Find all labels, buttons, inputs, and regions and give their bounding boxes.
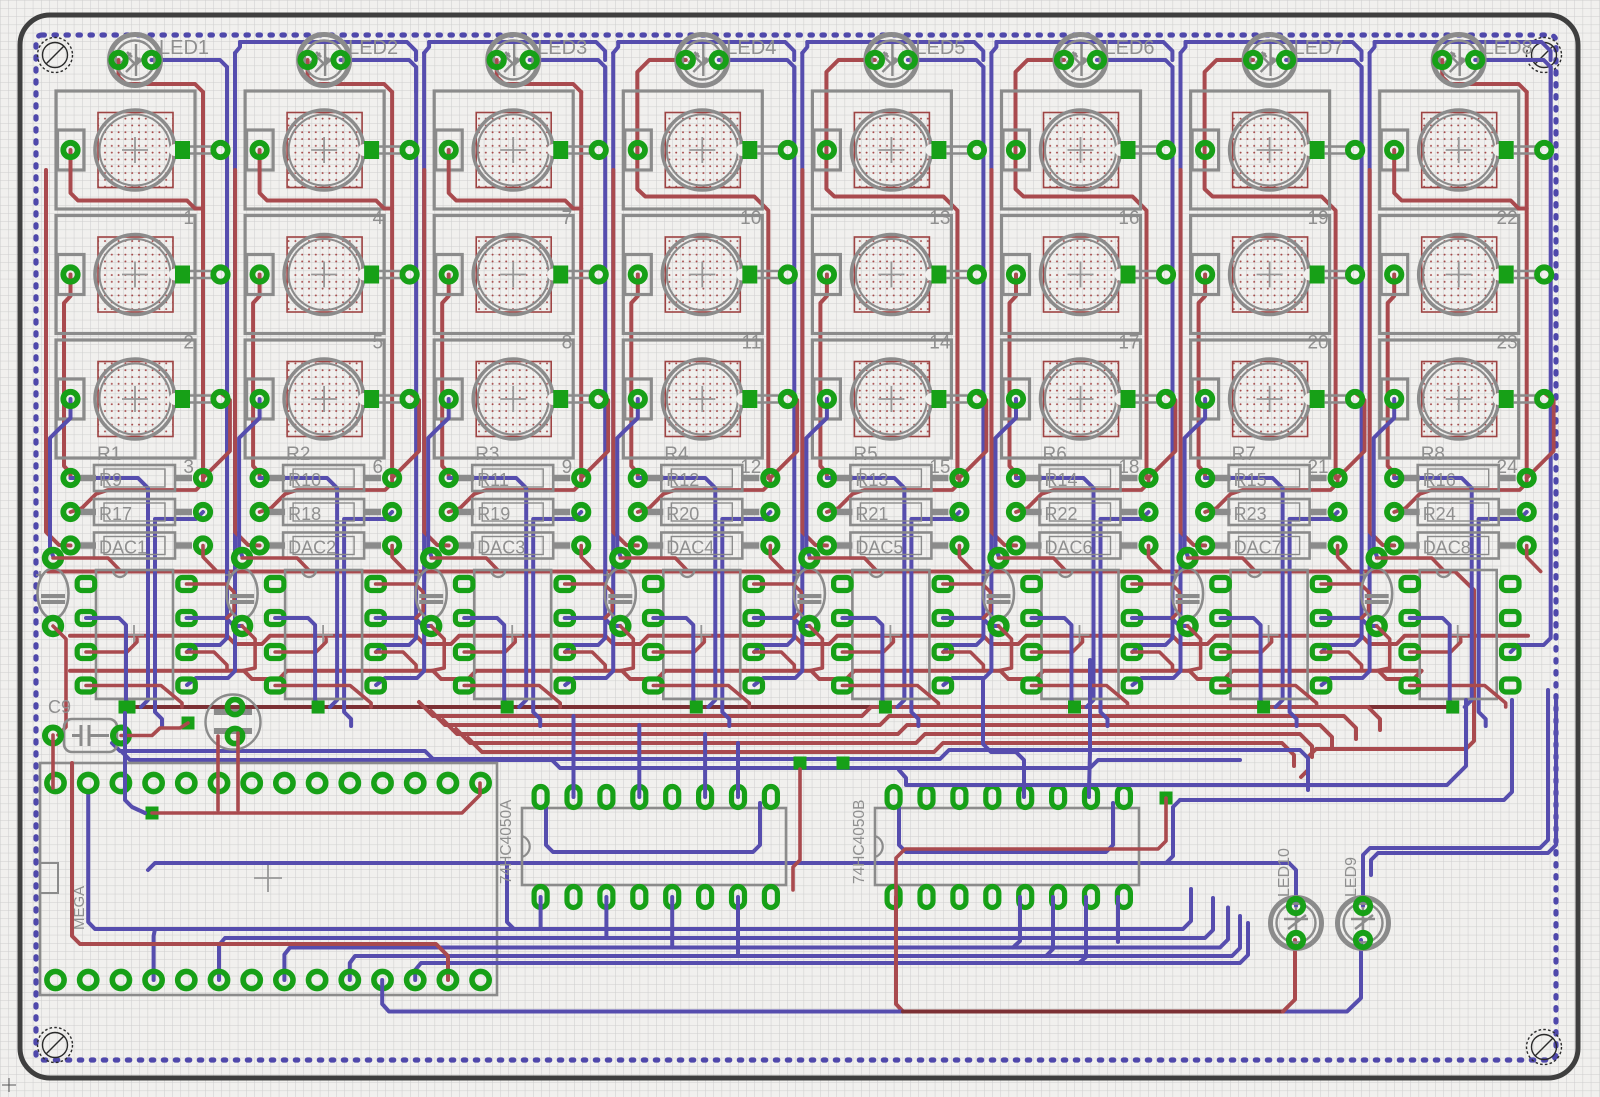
pad C5 - (801, 618, 817, 634)
wire red C6 bottom stub (999, 626, 1012, 671)
pad header bottom 8 (276, 971, 293, 988)
pad U3 pin7 right (556, 612, 574, 625)
button S8 cell (434, 216, 573, 334)
button S9 cell (434, 340, 573, 458)
wire blue IC1 drop (604, 897, 608, 938)
pad R11 left (442, 471, 456, 485)
svg-text:DAC4: DAC4 (666, 538, 714, 558)
LED LED1 (110, 35, 161, 86)
pad U5 pin4 left (834, 679, 852, 692)
pad IC1 bottom 6 (699, 887, 712, 908)
wire blue U6 pin2 stub (1032, 618, 1075, 705)
pad header top 9 (309, 774, 326, 791)
svg-text:5: 5 (373, 333, 384, 354)
pad C4 + (612, 550, 628, 566)
pad header bottom 5 (178, 971, 195, 988)
via S24 (1537, 392, 1551, 406)
pad U5 pin2 left (834, 612, 852, 625)
wire red U1 pin6 right (187, 652, 228, 671)
wire red R13 right riser col5 (959, 394, 986, 478)
button S3 cell (56, 340, 195, 458)
wire blue vertical V2 col2 (376, 53, 424, 685)
wire blue top jumper col6 (1181, 42, 1186, 53)
pad C7 + (1180, 550, 1196, 566)
pad S3 left (63, 392, 77, 406)
via S23 (1537, 267, 1551, 281)
wire blue U4 pin2 stub (653, 618, 696, 705)
wire red R19 bridge col3 (449, 478, 582, 512)
svg-text:R10: R10 (288, 470, 321, 490)
svg-text:LED2: LED2 (348, 37, 398, 59)
pad R11 right (574, 471, 588, 485)
pad DAC8 left (1387, 538, 1401, 552)
wire red C7 bottom stub (1188, 626, 1201, 671)
pad U4 pin1 left (645, 578, 663, 591)
wire red fan bus 2 (431, 711, 1356, 739)
wire red left vertical col2 (253, 275, 260, 479)
pad U4 pin4 left (645, 679, 663, 692)
wire red R20 bridge col4 (638, 478, 771, 512)
svg-text:R3: R3 (475, 444, 499, 465)
svg-text:R23: R23 (1234, 504, 1267, 524)
pad C5 + (801, 550, 817, 566)
wire red U7 pin3 stub (1221, 639, 1272, 652)
wire blue IC2 riser 1 (983, 678, 1024, 797)
pad DAC1 right (196, 538, 210, 552)
pad DAC2 right (385, 538, 399, 552)
pad header bottom 6 (210, 971, 227, 988)
button S5 cell (245, 216, 384, 334)
resistor DAC1 (78, 533, 192, 559)
svg-text:R12: R12 (666, 470, 699, 490)
wire red far-left vertical col6 (992, 170, 1017, 546)
wire blue link x507 (507, 863, 514, 929)
wire blue top jumper col7 (1370, 42, 1375, 53)
wire blue button S21 (1185, 399, 1206, 556)
pad C2 + (234, 550, 250, 566)
svg-text:DAC6: DAC6 (1045, 538, 1093, 558)
via square col4 (690, 701, 703, 714)
wire red bottom long (896, 897, 903, 1012)
wire blue U5 pin7 to C6 (943, 618, 999, 626)
button S21 cell (1191, 340, 1330, 458)
wire red C5 top stub (809, 558, 877, 572)
via square col8 (1446, 701, 1459, 714)
wire blue via links (125, 713, 145, 813)
wire red U4 pin3 stub (653, 639, 704, 652)
wire red far-left vertical col7 (1181, 170, 1206, 546)
button S24 cell (1380, 340, 1519, 458)
via square (800,763) (794, 757, 807, 770)
pad U7 pin7 right (1312, 612, 1330, 625)
wire blue IC2 riser 2 (1089, 660, 1090, 797)
pad U2 pin8 right (367, 578, 385, 591)
pad C3 + (423, 550, 439, 566)
pad U1 pin7 right (178, 612, 196, 625)
via S5 (402, 267, 416, 281)
pad header bottom 12 (407, 971, 424, 988)
wire red vertical col3 (579, 92, 583, 478)
pad S10 left (631, 143, 645, 157)
wire blue button S9 (428, 399, 449, 556)
wire blue bundle 3 (284, 908, 1228, 981)
capacitor C4 (603, 569, 636, 619)
pad IC2 bottom 7 (1085, 887, 1098, 908)
svg-text:R14: R14 (1045, 470, 1078, 490)
pad S18 left (1009, 392, 1023, 406)
wire blue LED6 stub (1097, 60, 1173, 92)
wire red bus y671 (70, 671, 1422, 679)
wire red button S4 (260, 150, 393, 209)
pad R18 right (385, 505, 399, 519)
svg-text:14: 14 (929, 333, 951, 354)
wire red C2 bottom stub (242, 626, 255, 671)
wire red DAC8 right stub (1527, 546, 1541, 572)
pad S20 left (1198, 267, 1212, 281)
capacitor C7 (1171, 569, 1204, 619)
wire blue mid vertical A col6 (1016, 478, 1094, 707)
wire red DAC6 right stub (1149, 546, 1163, 572)
svg-text:R20: R20 (666, 504, 699, 524)
svg-text:R6: R6 (1043, 444, 1067, 465)
wire red C5 bottom stub (809, 626, 822, 671)
wire blue IC1 riser (736, 743, 740, 797)
wire red U8 pin3 stub (1410, 639, 1461, 652)
pad DAC6 right (1141, 538, 1155, 552)
resistor R13 (834, 465, 948, 491)
resistor R22 (1024, 499, 1138, 525)
wire red R24 bridge col8 (1394, 478, 1527, 512)
wire blue IC1 riser (703, 734, 707, 797)
wire red DAC5 right stub (959, 546, 973, 572)
pad IC2 bottom 6 (1052, 887, 1065, 908)
wire red DAC2 right stub (392, 546, 406, 572)
pad S14 left (820, 267, 834, 281)
wire blue fan bus 1 (112, 743, 1308, 790)
pad S22 right D (1499, 141, 1514, 159)
pad U5 pin1 left (834, 578, 852, 591)
pad U3 pin4 left (455, 679, 473, 692)
svg-text:4: 4 (373, 208, 384, 229)
wire red U4 pin8 right (754, 584, 802, 618)
IC U8 DIP8 outline (1420, 570, 1497, 699)
svg-text:DAC2: DAC2 (288, 538, 336, 558)
pad header top 12 (407, 774, 424, 791)
wire red LED7 stub (1205, 60, 1336, 478)
pad U2 pin5 right (367, 679, 385, 692)
button S18 cell (1002, 340, 1141, 458)
wire blue mid vertical B col3 (533, 512, 581, 726)
resistor R17 (78, 499, 192, 525)
wire red C1 bottom stub (53, 626, 66, 735)
LED LED8 (1433, 35, 1484, 86)
pad Q1 b (227, 728, 242, 743)
via square (152,813) (146, 807, 159, 820)
wire red U6 pin6 right (1132, 652, 1173, 671)
pad U4 pin8 right (745, 578, 763, 591)
pad S2 right D (175, 266, 190, 284)
pad S19 right D (1310, 141, 1325, 159)
IC U4 DIP8 outline (663, 570, 740, 699)
capacitor C9 (64, 719, 117, 752)
pad S15 left (820, 392, 834, 406)
pad R10 right (385, 471, 399, 485)
pad C9 2 (113, 728, 129, 744)
wire red vertical col2 (390, 92, 394, 478)
pad U7 pin4 left (1212, 679, 1230, 692)
wire red far-left vertical col3 (424, 170, 449, 546)
wire blue vertical V1 col5 (943, 67, 983, 652)
pad C1 + (45, 550, 61, 566)
LED LED10 (1271, 898, 1322, 949)
pad header top 5 (178, 774, 195, 791)
pad IC1 bottom 8 (764, 887, 777, 908)
wire red C7 top stub (1188, 558, 1256, 572)
pad IC2 top 2 (920, 787, 933, 808)
wire red fan bus 5 (468, 738, 1294, 766)
wire red LED4 stub (637, 60, 768, 478)
IC IC1 74HC4050A (522, 808, 786, 885)
svg-text:11: 11 (742, 333, 762, 354)
pad IC1 top 3 (600, 787, 613, 808)
module MEGA center cross (254, 864, 282, 892)
pad header bottom 4 (145, 971, 162, 988)
svg-text:74HC4050A: 74HC4050A (498, 799, 515, 884)
svg-text:R1: R1 (97, 444, 121, 465)
pad header top 11 (374, 774, 391, 791)
svg-text:8: 8 (562, 333, 573, 354)
wire blue vertical V2 col1 (187, 53, 235, 685)
pad S9 left (442, 392, 456, 406)
button S1 cell (56, 91, 195, 209)
wire red bus y707 (129, 705, 1451, 709)
pad IC2 bottom 3 (953, 887, 966, 908)
wire blue LED8 stub (1475, 60, 1551, 92)
LED LED9 (1338, 898, 1389, 949)
wire red trimmer drop B (236, 733, 240, 810)
svg-text:LED5: LED5 (915, 37, 965, 59)
pad U8 pin2 left (1401, 612, 1419, 625)
wire red left vertical col8 (1388, 275, 1395, 479)
svg-text:R8: R8 (1421, 444, 1445, 465)
svg-text:LED4: LED4 (726, 37, 776, 59)
button S12 cell (623, 340, 762, 458)
pad R13 left (820, 471, 834, 485)
wire red R23 bridge col7 (1205, 478, 1338, 512)
svg-text:R2: R2 (286, 444, 310, 465)
pad header bottom 14 (472, 971, 489, 988)
resistor R15 (1213, 465, 1327, 491)
pad U1 pin2 left (77, 612, 95, 625)
IC U1 DIP8 outline (96, 570, 173, 699)
svg-text:LED8: LED8 (1483, 37, 1533, 59)
via square (843,763) (837, 757, 850, 770)
mounting hole H3 (38, 1028, 73, 1063)
pad DAC7 left (1198, 538, 1212, 552)
wire blue vertical V1 col4 (754, 67, 794, 652)
wire blue mid vertical A col7 (1205, 478, 1283, 707)
pad R17 right (196, 505, 210, 519)
mounting hole H1 (38, 38, 73, 73)
LED LED7 (1244, 35, 1295, 86)
pad header top 1 (47, 774, 64, 791)
pad S7 left (442, 143, 456, 157)
pad U2 pin4 left (266, 679, 284, 692)
pad header bottom 10 (341, 971, 358, 988)
pad header top 2 (80, 774, 97, 791)
wire red left vertical col1 (64, 275, 71, 479)
pad S12 left (631, 392, 645, 406)
svg-text:16: 16 (1118, 208, 1139, 229)
wire blue IC2 interior (899, 803, 1113, 852)
wire red C8 top stub (1377, 558, 1445, 572)
wire red bus y636 (70, 636, 1528, 644)
capacitor C5 (792, 569, 825, 619)
wire blue IC1 drop (670, 897, 674, 948)
pad U1 pin1 left (77, 578, 95, 591)
wire blue button S18 (996, 399, 1017, 556)
svg-text:R15: R15 (1234, 470, 1267, 490)
wire blue U1 pin2 stub (86, 618, 129, 705)
pad U6 pin5 right (1123, 679, 1141, 692)
wire blue vertical V2 col6 (1133, 53, 1181, 685)
pad S23 right D (1499, 266, 1514, 284)
via S20 (1348, 267, 1362, 281)
pad IC1 top 7 (732, 787, 745, 808)
pad S13 left (820, 143, 834, 157)
IC U6 DIP8 outline (1042, 570, 1119, 699)
via S8 (592, 267, 606, 281)
wire red C9 pad1 drop (51, 735, 55, 788)
IC U7 DIP8 outline (1231, 570, 1308, 699)
trimmer Q1 (206, 695, 261, 750)
pad U6 pin8 right (1123, 578, 1141, 591)
wire blue vertical V1 col8 (1511, 67, 1551, 652)
resistor DAC7 (1213, 533, 1327, 559)
pad R12 left (631, 471, 645, 485)
pad header bottom 7 (243, 971, 260, 988)
wire blue mid vertical B col5 (911, 512, 959, 726)
pad header top 10 (341, 774, 358, 791)
button S2 cell (56, 216, 195, 334)
pad IC2 top 3 (953, 787, 966, 808)
module MEGA usb notch (40, 863, 58, 893)
pad S22 left (1387, 143, 1401, 157)
pad IC1 top 6 (699, 787, 712, 808)
pad R14 left (1009, 471, 1023, 485)
wire red c9 link (121, 723, 188, 736)
wire blue bottom to LED9 (382, 940, 1361, 1012)
pad DAC5 left (820, 538, 834, 552)
wire blue mid vertical B col1 (155, 512, 203, 726)
wire red R18 bridge col2 (260, 478, 393, 512)
via S22 (1537, 143, 1551, 157)
pad U6 pin6 right (1123, 646, 1141, 659)
wire red far-left vertical col5 (802, 170, 827, 546)
pad S3 right D (175, 390, 190, 408)
pad S10 right D (742, 141, 757, 159)
pad IC1 top 8 (764, 787, 777, 808)
svg-text:74HC4050B: 74HC4050B (851, 800, 868, 884)
pad S1 right D (175, 141, 190, 159)
wire red button S1 (71, 150, 204, 209)
via S1 (213, 143, 227, 157)
svg-text:13: 13 (929, 208, 950, 229)
wire red via1166 down (896, 798, 1166, 897)
pad U4 pin6 right (745, 646, 763, 659)
svg-text:DAC3: DAC3 (477, 538, 525, 558)
svg-text:R19: R19 (477, 504, 510, 524)
wire red U2 pin6 right (376, 652, 417, 671)
svg-text:LED1: LED1 (159, 37, 209, 59)
svg-text:LED9: LED9 (1343, 857, 1360, 897)
pad IC2 top 7 (1085, 787, 1098, 808)
pad R23 left (1198, 505, 1212, 519)
via S12 (781, 392, 795, 406)
wire blue mid vertical B col6 (1101, 512, 1149, 726)
pad U8 pin4 left (1401, 679, 1419, 692)
button S15 cell (812, 340, 951, 458)
wire blue U1 pin7 to C2 (187, 618, 243, 626)
pad header top 7 (243, 774, 260, 791)
pad R10 left (252, 471, 266, 485)
wire red R11 right riser col3 (581, 394, 608, 478)
pad DAC6 left (1009, 538, 1023, 552)
svg-text:R11: R11 (477, 470, 509, 490)
wire blue vertical V2 col3 (565, 53, 613, 685)
pad S17 left (1009, 267, 1023, 281)
pad R24 right (1520, 505, 1534, 519)
pad C1 - (45, 618, 61, 634)
pad S2 left (63, 267, 77, 281)
pad DAC7 right (1330, 538, 1344, 552)
LED LED3 (488, 35, 539, 86)
svg-text:R22: R22 (1045, 504, 1078, 524)
resistor DAC4 (645, 533, 759, 559)
wire red U6 pin3 stub (1032, 639, 1083, 652)
pad U6 pin7 right (1123, 612, 1141, 625)
button S22 cell (1380, 91, 1519, 209)
pad IC2 bottom 2 (920, 887, 933, 908)
pad S15 right D (931, 390, 946, 408)
pad R16 left (1387, 471, 1401, 485)
wire red mega trace (72, 763, 448, 980)
wire blue U3 pin7 to C4 (565, 618, 621, 626)
wire blue button S3 (50, 399, 71, 556)
via square col1 (123, 701, 136, 714)
pad U5 pin8 right (934, 578, 952, 591)
wire red left vertical col5 (820, 275, 827, 479)
wire blue IC1 riser (637, 725, 641, 797)
pad R12 right (763, 471, 777, 485)
pad R23 right (1330, 505, 1344, 519)
via square (188,723) (182, 717, 195, 730)
wire red R14 right riser col6 (1149, 394, 1176, 478)
wire red fan bus 4 (456, 729, 1312, 757)
pad U3 pin5 right (556, 679, 574, 692)
wire red U4 pin6 right (754, 652, 795, 671)
resistor R18 (267, 499, 381, 525)
pad U8 pin1 left (1401, 578, 1419, 591)
wire blue right C2 (1371, 700, 1556, 875)
wire red left vertical col6 (1010, 275, 1017, 479)
pad S24 left (1387, 392, 1401, 406)
svg-text:R17: R17 (99, 504, 132, 524)
wire red U6 pin8 right (1132, 584, 1180, 618)
pad IC1 top 5 (666, 787, 679, 808)
wire blue U7 pin7 to C8 (1321, 618, 1377, 626)
wire red fan bus 1 (419, 702, 1380, 730)
